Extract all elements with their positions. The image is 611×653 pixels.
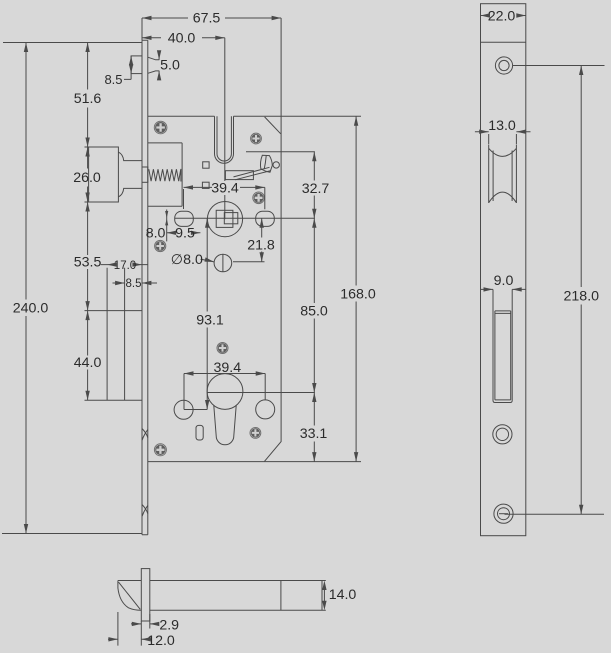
arrows dim 51.6	[85, 43, 89, 53]
svg-text:168.0: 168.0	[340, 286, 376, 302]
latch channel	[148, 143, 182, 206]
dim 39.4 upper line	[184, 187, 265, 209]
roller pulley	[489, 145, 517, 204]
latch head extension lines	[85, 147, 89, 202]
arrows dim 2.9	[132, 622, 142, 626]
svg-text:∅8.0: ∅8.0	[171, 252, 203, 268]
arrows dim 8.5b	[115, 281, 125, 285]
dim 93.1 line	[206, 218, 208, 409]
svg-text:22.0: 22.0	[488, 8, 516, 24]
dim 5.0 arrstems	[158, 51, 160, 80]
lever pivot	[273, 162, 279, 168]
svg-text:13.0: 13.0	[488, 118, 516, 134]
left guide hole	[175, 211, 194, 226]
screw 5	[217, 343, 228, 354]
arrows dim 9.0	[484, 287, 494, 291]
faceplate break mark upper	[142, 429, 148, 441]
dim 14.0 line	[323, 584, 325, 607]
small square hole on dim line	[202, 182, 209, 188]
lever bar	[225, 171, 253, 180]
dim 85.0 line	[207, 218, 315, 392]
arrows dim 40.0	[142, 36, 152, 40]
side mid hole	[493, 425, 512, 444]
svg-text:21.8: 21.8	[247, 237, 275, 253]
tab back lug	[148, 57, 160, 73]
arrows dim 44.0	[85, 311, 89, 321]
arrows dim 32.7	[312, 152, 316, 162]
dim 40.0 line	[142, 37, 225, 39]
svg-text:218.0: 218.0	[564, 289, 600, 305]
bottom latch shaft	[150, 581, 326, 611]
dim 2.9 line	[131, 614, 159, 629]
dim 12.0 line	[108, 612, 151, 646]
arrows dim 53.5	[85, 202, 89, 212]
euro cylinder stem	[214, 406, 236, 445]
dim 21.8 line	[233, 218, 265, 262]
dim 13.0 ext	[475, 132, 531, 144]
arrows dim 21.8	[260, 218, 264, 228]
dim 8.0 9.5 line	[147, 189, 201, 241]
deadbolt front	[85, 268, 143, 400]
dia 8.0 leader	[201, 259, 215, 262]
screw 3	[253, 192, 265, 204]
arrows dim 218.0	[579, 66, 583, 76]
arrows dim 26.0	[85, 147, 89, 157]
keyhole right circle	[256, 400, 275, 419]
screw 2	[251, 133, 262, 144]
arrows dim 12.0	[108, 637, 118, 641]
hub circle	[207, 202, 242, 237]
arrow dia 8.0 leader	[204, 257, 214, 264]
centerline horizontal	[175, 217, 315, 219]
svg-text:5.0: 5.0	[160, 58, 180, 74]
U-notch outer	[215, 116, 234, 163]
dim 32.7 line	[246, 152, 315, 218]
keyhole left circle	[174, 400, 193, 419]
arrows dim 8.0 9.5	[167, 231, 177, 235]
svg-text:33.1: 33.1	[300, 426, 328, 442]
arrows dim 22.0	[481, 13, 491, 17]
screw 7	[154, 444, 166, 456]
svg-text:53.5: 53.5	[74, 255, 102, 271]
small square hole upper	[203, 162, 209, 168]
screw 6	[250, 428, 261, 439]
right guide hole	[256, 211, 275, 226]
svg-text:32.7: 32.7	[302, 181, 330, 197]
bottom latch flange	[141, 569, 150, 621]
svg-text:85.0: 85.0	[300, 304, 328, 320]
faceplate front view	[142, 40, 148, 535]
svg-text:8.5: 8.5	[104, 72, 122, 87]
latch bolt head	[89, 147, 119, 202]
arrows dim 39.4 upper	[184, 185, 194, 189]
faceplate break mark lower	[142, 505, 148, 517]
svg-text:240.0: 240.0	[13, 301, 49, 317]
hub square follower	[216, 210, 233, 227]
dim 8.5 top	[124, 56, 131, 80]
euro cylinder circle	[207, 374, 243, 410]
dim 44.0 line	[87, 311, 89, 401]
svg-text:17.0: 17.0	[114, 260, 136, 272]
arrows dim 5.0	[157, 50, 161, 60]
arrows dim 14.0	[322, 581, 326, 591]
svg-text:9.0: 9.0	[494, 273, 514, 289]
dim 39.4 lower line	[184, 374, 265, 410]
arrows dim 85.0	[312, 218, 316, 228]
svg-text:67.5: 67.5	[193, 11, 221, 27]
hole dia 8	[214, 254, 232, 272]
U-notch inner	[217, 116, 231, 161]
side strip outline	[481, 4, 526, 536]
arrows dim 17.0	[107, 262, 117, 266]
dim 33.1 line	[313, 393, 315, 462]
side hole leader	[513, 65, 605, 67]
arrows dim 13.0	[479, 130, 489, 134]
arrows dim 8.5 top	[129, 56, 133, 66]
dim 9.0 line	[481, 288, 526, 290]
lever rod	[234, 167, 271, 180]
svg-text:12.0: 12.0	[147, 633, 175, 649]
side bottom hole	[494, 504, 513, 523]
dim 17.0 line	[101, 264, 148, 266]
hub small square	[224, 213, 238, 224]
svg-text:8.0: 8.0	[146, 226, 166, 242]
bottom latch head	[118, 581, 141, 611]
arrows dim 168.0	[354, 116, 358, 126]
arrows ext centerline small	[165, 211, 168, 218]
dim 240.0 line	[2, 43, 142, 534]
dim 26.0 line	[87, 147, 89, 202]
arrows dim 240.0	[24, 43, 28, 53]
screw 4	[155, 240, 166, 251]
side top hole	[495, 57, 512, 74]
svg-text:26.0: 26.0	[73, 170, 101, 186]
svg-text:93.1: 93.1	[196, 313, 224, 329]
arrows dim 33.1	[312, 393, 316, 403]
side slot outer	[493, 289, 512, 402]
latch bolt neck	[118, 152, 142, 197]
svg-text:14.0: 14.0	[329, 587, 357, 603]
svg-text:39.4: 39.4	[213, 360, 241, 376]
svg-text:40.0: 40.0	[168, 31, 196, 47]
faceplate top tab	[131, 56, 142, 74]
dim 8.5b line	[113, 282, 158, 284]
screw 1	[154, 121, 167, 134]
svg-text:9.5: 9.5	[175, 226, 195, 242]
svg-text:44.0: 44.0	[74, 355, 102, 371]
dim 168.0 line	[264, 116, 361, 461]
dim 218.0 line	[505, 66, 605, 515]
lock case outline	[148, 116, 281, 461]
small slot hole	[196, 425, 203, 440]
svg-text:39.4: 39.4	[211, 181, 239, 197]
dim 22.0 line	[481, 15, 526, 17]
centerline vertical	[223, 38, 225, 272]
side slot inner	[495, 311, 511, 400]
arrows dim 39.4 lower	[184, 371, 194, 375]
side strip seam	[481, 41, 526, 43]
svg-text:2.9: 2.9	[159, 618, 179, 634]
latch spring	[149, 169, 181, 182]
dim 51.6 line	[87, 43, 89, 148]
latch bolt tail through plate	[142, 167, 148, 182]
svg-text:51.6: 51.6	[74, 91, 102, 107]
case corner bend line	[265, 117, 281, 134]
svg-text:8.5: 8.5	[126, 278, 142, 290]
arrows dim 93.1	[205, 218, 209, 228]
arrows dim 67.5	[142, 16, 152, 20]
dim 67.5 line	[142, 18, 281, 116]
dim 53.5 line	[87, 202, 89, 311]
lever cam	[260, 155, 272, 172]
